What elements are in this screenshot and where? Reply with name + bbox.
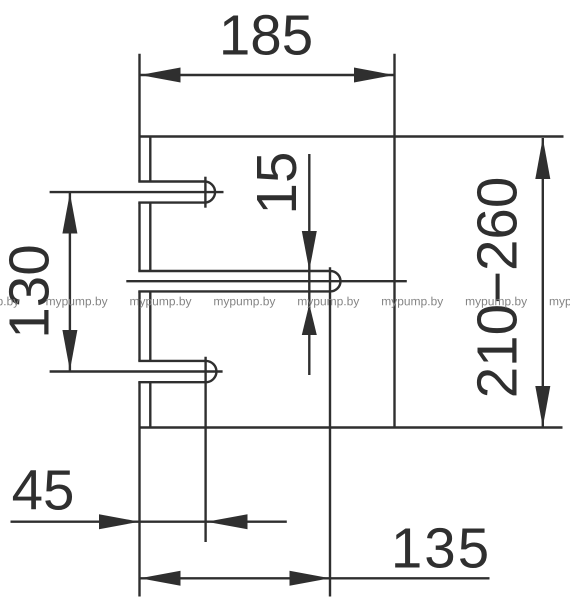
dimension line 185	[140, 74, 395, 76]
middle port pipe edges	[138, 271, 330, 291]
svg-text:135: 135	[391, 517, 491, 580]
arrow 210-260 down	[535, 386, 550, 427]
body bottom edge / extension line for 210-260	[140, 426, 563, 428]
middle port cap tick / extension line for 135	[329, 267, 331, 596]
svg-text:45: 45	[12, 458, 75, 521]
svg-text:210−260: 210−260	[466, 177, 529, 399]
arrow 135 right	[290, 571, 331, 586]
dimension line 130	[69, 193, 71, 371]
top port rounded cap	[205, 182, 216, 203]
body right edge / extension line for 185	[393, 54, 395, 428]
arrow 15 up	[302, 304, 317, 335]
body left outer edge / extension line for 185, 45, 135	[138, 54, 140, 597]
top port centre line / extension line for 130	[50, 191, 224, 193]
dimension line 135	[140, 577, 490, 579]
middle port centre line	[126, 280, 407, 282]
svg-text:130: 130	[0, 244, 61, 338]
bottom port pipe edges	[138, 361, 206, 382]
arrow 15 down	[302, 231, 317, 271]
dimension line 45	[11, 521, 287, 523]
arrow 185 right	[354, 68, 394, 83]
top port cap tick	[204, 177, 206, 208]
arrow 45 left-pointing	[207, 514, 248, 529]
arrow 135 left	[140, 571, 181, 586]
arrow 210-260 up	[535, 138, 550, 179]
arrow 45 right-pointing	[99, 514, 140, 529]
bottom port rounded cap	[206, 361, 217, 382]
bottom port centre line / extension line for 130	[50, 370, 223, 372]
body left inner wall line	[149, 138, 151, 428]
arrow 130 up	[62, 193, 77, 234]
watermark row mypump.by	[0, 297, 19, 308]
svg-text:15: 15	[245, 152, 308, 215]
top port pipe edges	[138, 182, 204, 203]
dimension line 15	[308, 154, 310, 375]
middle port rounded cap	[330, 271, 340, 291]
dimension line 210-260	[542, 138, 544, 427]
arrow 185 left	[140, 68, 181, 83]
arrow 130 down	[62, 330, 77, 371]
body top edge / extension line for 210-260	[140, 135, 564, 137]
svg-text:185: 185	[219, 4, 313, 67]
bottom port cap tick / extension line for 45	[204, 357, 206, 542]
